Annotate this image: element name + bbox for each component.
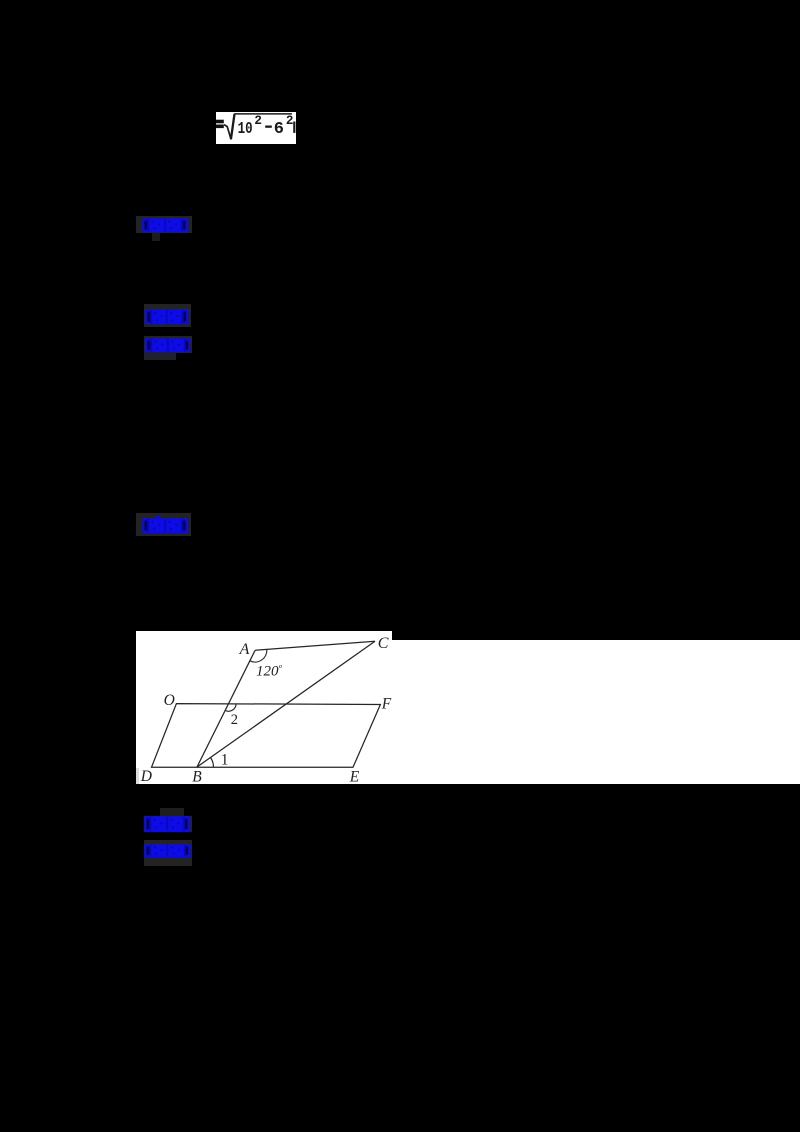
line B to A	[197, 650, 255, 767]
line B to C	[197, 641, 375, 767]
svg-text:6: 6	[274, 120, 284, 139]
svg-text:C: C	[377, 635, 388, 652]
svg-text:1: 1	[220, 751, 228, 768]
label 3	[144, 336, 192, 353]
diagram image	[136, 631, 393, 784]
arc 120 deg at A	[249, 650, 266, 662]
svg-text:10: 10	[238, 120, 253, 139]
svg-text:120º: 120º	[256, 664, 283, 680]
svg-text:E: E	[348, 769, 359, 784]
label 4	[136, 513, 191, 537]
parallelogram O F E D	[151, 704, 380, 768]
arc angle 2	[225, 704, 236, 711]
formula image =sqrt(10^2-6^2)	[216, 112, 296, 144]
label 5	[160, 808, 184, 817]
svg-text:2: 2	[230, 712, 237, 728]
svg-text:A: A	[238, 641, 249, 658]
line A to C	[255, 641, 375, 650]
svg-text:2: 2	[286, 114, 294, 128]
label 6	[144, 840, 192, 866]
faint gray strip at diagram lower-left edge	[136, 768, 139, 784]
svg-text:B: B	[192, 768, 202, 783]
label 2	[144, 304, 191, 327]
arc angle 1	[210, 758, 213, 768]
svg-text:O: O	[163, 692, 174, 709]
svg-text:F: F	[380, 695, 391, 712]
big white box	[392, 640, 800, 784]
svg-text:D: D	[139, 768, 151, 784]
label 4 ascender nub	[156, 515, 160, 519]
label 1	[136, 216, 192, 233]
svg-text:2: 2	[254, 114, 262, 128]
